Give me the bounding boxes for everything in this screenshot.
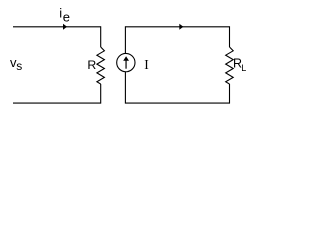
wire: right loop right vertical bottom stub (229, 84, 231, 104)
wire: right loop bottom horizontal (125, 102, 229, 104)
svg-text:I: I (144, 57, 149, 72)
wire: right loop left vertical top stub (124, 26, 126, 53)
svg-text:R: R (87, 58, 96, 72)
resistor RL (226, 47, 234, 84)
wire: left loop bottom horizontal (13, 102, 101, 104)
resistor R (97, 47, 105, 84)
wire: left loop right vertical top stub (100, 26, 102, 47)
current arrow head on right loop top wire (179, 24, 183, 30)
current arrow i_e head on top wire (63, 24, 67, 30)
svg-text:s: s (16, 59, 22, 73)
wire: left loop top horizontal (13, 26, 101, 28)
wire: right loop right vertical top stub (229, 26, 231, 47)
label v_s (10, 55, 22, 73)
label i_e (59, 6, 70, 25)
wire: right loop top horizontal (125, 26, 229, 28)
svg-text:L: L (241, 63, 246, 73)
current source arrow (123, 56, 129, 68)
label RL (233, 56, 246, 72)
current source I circle (117, 53, 135, 71)
svg-text:e: e (63, 9, 70, 24)
wire: left loop right vertical bottom stub (100, 84, 102, 104)
wire: right loop left vertical bottom stub (124, 72, 126, 104)
